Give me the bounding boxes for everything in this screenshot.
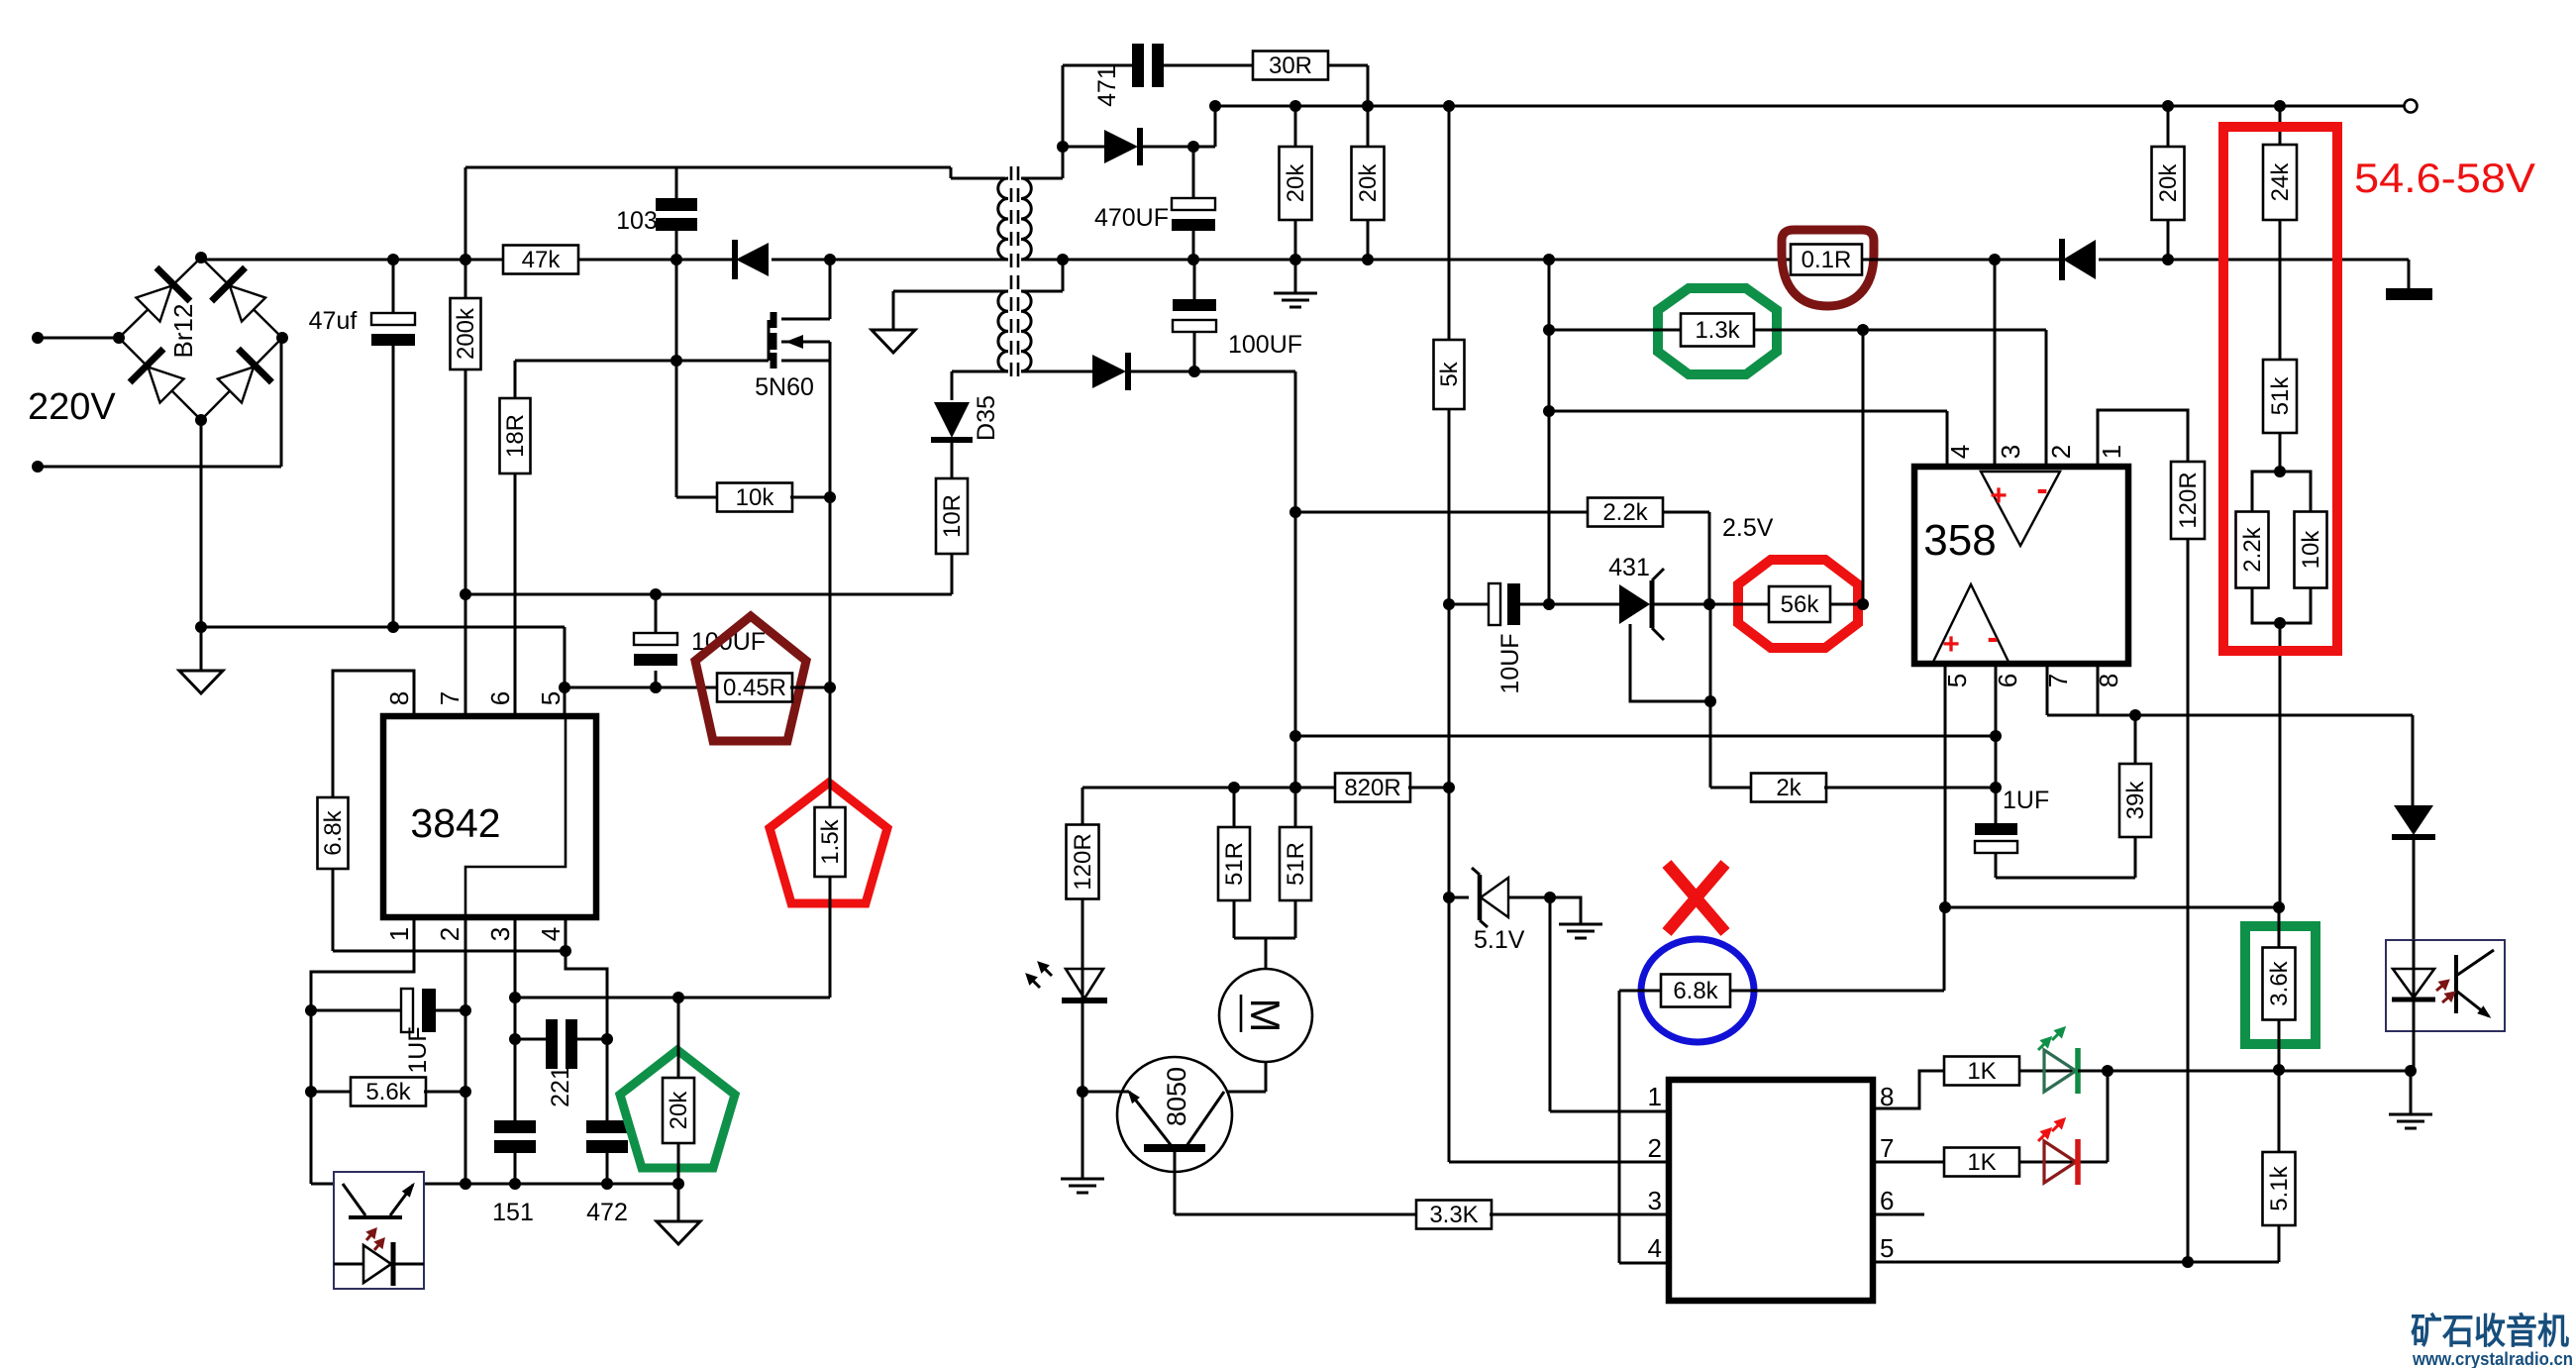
optocoupler U4 LED [2392, 940, 2435, 1071]
diode secondary rectifier bottom [1092, 353, 1194, 390]
bridge diode D3 (bottom-left edge) [130, 349, 188, 407]
svg-text:Br12: Br12 [168, 304, 198, 359]
wire 431 ref [1630, 604, 1716, 788]
svg-text:20k: 20k [2155, 163, 2182, 203]
wire lower output jog [1194, 371, 1301, 827]
ground symbol pentagon [657, 1184, 700, 1244]
svg-text:3: 3 [1996, 445, 2025, 459]
node AC input top terminal [32, 332, 119, 344]
resistor 51R second [1280, 788, 1311, 938]
wire U3 pin2 [1449, 1161, 1669, 1164]
wire pwm feedback [515, 992, 830, 1003]
resistor 30R [1164, 52, 1368, 107]
svg-text:5: 5 [536, 691, 566, 705]
svg-text:51R: 51R [1283, 842, 1309, 886]
svg-text:1: 1 [2097, 445, 2126, 459]
svg-text:8: 8 [384, 691, 414, 705]
svg-text:-: - [2036, 471, 2047, 508]
svg-text:-: - [1987, 619, 1998, 657]
svg-text:6: 6 [485, 691, 515, 705]
svg-text:1K: 1K [1967, 1149, 1996, 1176]
svg-text:47k: 47k [522, 247, 562, 273]
svg-text:1: 1 [384, 927, 414, 941]
labels U3 left pins [1648, 1082, 1662, 1263]
svg-text:2k: 2k [1776, 775, 1802, 801]
resistor 2.2k middle [1588, 498, 1715, 611]
svg-text:10UF: 10UF [1496, 633, 1524, 693]
resistor 120R right [2171, 462, 2205, 1268]
wire aux right bottom [1021, 370, 1092, 373]
resistor 2k [1710, 774, 1996, 802]
resistor 51k [2263, 360, 2297, 477]
resistor 5.1k [2263, 1070, 2296, 1262]
svg-text:100UF: 100UF [1228, 331, 1302, 359]
LED red [2019, 1071, 2108, 1185]
svg-text:1.5k: 1.5k [817, 818, 844, 864]
wire secondary common rail [1063, 254, 1791, 265]
ground symbol LED [1061, 1092, 1104, 1193]
svg-text:39k: 39k [2122, 781, 2149, 820]
wire 3842 pin2 [460, 917, 471, 1190]
wire U3 pin5 line [1873, 1261, 2279, 1264]
wire emitter to 3.3K [1175, 1152, 1418, 1214]
svg-text:2.5V: 2.5V [1722, 514, 1774, 542]
wire sense vertical [1543, 254, 1555, 604]
svg-text:30R: 30R [1269, 53, 1312, 79]
resistor 1.5k [815, 687, 846, 998]
wire drain vertical [781, 260, 830, 319]
svg-text:2: 2 [2046, 445, 2076, 459]
capacitor 100UF vcc filter [634, 594, 766, 693]
svg-text:220V: 220V [28, 386, 116, 428]
resistor 3.6k [2263, 907, 2296, 1076]
svg-text:4: 4 [1945, 445, 1975, 459]
wire 51R join [1234, 938, 1295, 969]
svg-text:5: 5 [1880, 1233, 1894, 1263]
wire 56k right vertical [1862, 330, 1865, 604]
svg-text:5.1k: 5.1k [2266, 1165, 2293, 1210]
wire AC bottom to bridge right [280, 338, 283, 467]
resistor 200k [451, 167, 481, 594]
label 54.6-58V [2354, 155, 2535, 201]
diode secondary rectifier top [1063, 106, 1215, 165]
svg-text:1.3k: 1.3k [1695, 317, 1740, 344]
svg-text:6.8k: 6.8k [1673, 978, 1718, 1004]
svg-text:103: 103 [616, 207, 658, 235]
optocoupler U4 phototransistor [2432, 950, 2494, 1022]
svg-text:200k: 200k [453, 307, 479, 360]
wire comp line [1295, 735, 1996, 738]
svg-text:56k: 56k [1781, 591, 1820, 618]
wire RT timing [333, 917, 613, 1120]
node AC input bottom terminal [32, 461, 281, 473]
resistor 39k [1996, 715, 2151, 878]
optocoupler U5 box [334, 1172, 424, 1289]
resistor 1K red [1944, 1148, 2044, 1177]
svg-text:18R: 18R [502, 414, 529, 458]
transformer T1 aux winding right [1021, 291, 1031, 371]
transformer T1 secondary winding [1021, 178, 1031, 260]
svg-text:20k: 20k [1355, 163, 1382, 203]
resistor 3.3K [1416, 1201, 1669, 1229]
zener diode 5.1V [1449, 868, 1556, 954]
svg-text:3.3K: 3.3K [1429, 1202, 1478, 1228]
octagon red around 56k [1738, 560, 1858, 648]
resistor 56k [1709, 586, 1869, 622]
svg-text:2: 2 [435, 927, 464, 941]
svg-text:M: M [1242, 999, 1288, 1033]
wire Vcc aux [460, 588, 952, 716]
svg-text:1UF: 1UF [2003, 787, 2049, 814]
optocoupler U5 phototransistor [343, 1180, 419, 1254]
svg-text:2.2k: 2.2k [2239, 526, 2266, 572]
wire bridge bottom to ground rail [200, 420, 203, 627]
svg-text:0.45R: 0.45R [723, 675, 786, 701]
wire aux left bottom [952, 371, 1008, 400]
wire pin3 to output rail [1989, 254, 2001, 467]
svg-text:6: 6 [1880, 1186, 1894, 1215]
capacitor 471 [1063, 44, 1164, 107]
svg-text:6.8k: 6.8k [320, 809, 347, 855]
rectangle red highlight [2223, 127, 2337, 651]
svg-text:431: 431 [1608, 554, 1650, 581]
resistor 20k pentagon [663, 998, 694, 1184]
svg-text:8050: 8050 [1162, 1067, 1191, 1126]
label 220V [28, 386, 116, 428]
motor M1 [1219, 969, 1312, 1062]
svg-text:0.1R: 0.1R [1802, 247, 1852, 273]
resistor 10k [717, 483, 836, 688]
svg-text:3: 3 [1648, 1186, 1662, 1215]
wire U3 pin1 [1550, 897, 1669, 1111]
ground symbol aux [872, 330, 915, 353]
optocoupler U4 box [2386, 940, 2505, 1031]
labels 3842 bottom pins [384, 927, 566, 941]
svg-text:20k: 20k [666, 1091, 692, 1130]
svg-text:3: 3 [485, 927, 515, 941]
svg-text:358: 358 [1923, 516, 1996, 565]
label 2.5V [1722, 514, 1774, 542]
regulator 431 [1549, 554, 1709, 640]
capacitor 1UF right [1975, 787, 2049, 878]
resistor 6.8k vref [318, 671, 415, 951]
watermark logo [2411, 1311, 2569, 1351]
wire +V rail [1209, 100, 2404, 112]
wire divider bottom [2274, 617, 2286, 907]
svg-text:+: + [1990, 479, 2008, 512]
labels 358 bottom pins [1942, 674, 2123, 687]
wire gate [515, 260, 769, 497]
resistor 24k [2263, 106, 2297, 360]
bridge rectifier Br12 diamond [113, 252, 288, 426]
bridge diode D2 (right-top edge) [212, 267, 270, 326]
op-amp B triangle [1933, 584, 2009, 662]
svg-text:5N60: 5N60 [755, 373, 814, 401]
diode feed right [2392, 715, 2435, 940]
label Br12 [168, 304, 198, 359]
capacitor 221 [515, 1019, 607, 1107]
capacitor 47uf [309, 260, 415, 627]
wire 2.2k feed [1295, 511, 1589, 514]
ground symbol 20k [1274, 260, 1317, 307]
svg-text:10k: 10k [736, 484, 775, 511]
svg-text:5.6k: 5.6k [365, 1079, 411, 1105]
resistor 10k right [2280, 512, 2327, 624]
bridge diode D1 (left-top edge) [132, 267, 190, 326]
resistor 0.45R [717, 674, 836, 702]
diode main line (left-pointing) [735, 240, 836, 279]
svg-text:1UF: 1UF [404, 1026, 432, 1073]
ground symbol zener [1550, 897, 1602, 938]
wire HV rail top [465, 167, 1005, 178]
svg-text:470UF: 470UF [1094, 204, 1169, 232]
rectangle green highlight [2245, 926, 2316, 1044]
svg-text:10R: 10R [939, 494, 966, 538]
svg-text:5k: 5k [1436, 361, 1463, 386]
wire comparator input [1944, 901, 2285, 913]
pentagon green around 20k [620, 1050, 735, 1168]
svg-text:51k: 51k [2267, 376, 2294, 416]
wire 358 pin5 [1939, 664, 1951, 913]
pentagon dark-red around 0.45R [695, 616, 806, 741]
mark red X [1667, 864, 1725, 932]
wire pin2 connect [2045, 330, 2048, 467]
svg-text:1K: 1K [1967, 1058, 1996, 1085]
resistor 20k first [1280, 106, 1312, 260]
pentagon red around 1.5k [770, 783, 887, 903]
svg-text:4: 4 [1648, 1233, 1662, 1263]
bridge diode D4 (bottom-right edge) [213, 349, 271, 407]
octagon green around 1.3k [1658, 288, 1777, 374]
resistor 1.3k [1543, 314, 2046, 347]
capacitor 1UF comp [311, 989, 465, 1074]
svg-text:2: 2 [1648, 1133, 1662, 1163]
ground wire bottom-left [195, 621, 565, 633]
svg-text:24k: 24k [2267, 162, 2294, 202]
LED green [2019, 1022, 2113, 1094]
svg-text:7: 7 [1880, 1133, 1894, 1163]
svg-text:51R: 51R [1221, 842, 1248, 886]
capacitor 470UF [1094, 147, 1215, 265]
transistor Q2 8050 [1117, 1057, 1232, 1172]
ground symbol right [2389, 1071, 2432, 1128]
wire LED to base node [1077, 1000, 1088, 1098]
wire zener node to op-amp pin4 [1549, 411, 1947, 467]
svg-text:20k: 20k [1283, 163, 1309, 203]
svg-text:54.6-58V: 54.6-58V [2354, 155, 2535, 201]
wire 3842 internal [465, 719, 566, 914]
labels 358 top pins [1945, 445, 2126, 459]
wire secondary bottom [1021, 254, 1069, 265]
svg-text:471: 471 [1093, 65, 1121, 107]
wire U3 pin8 [1873, 1071, 1944, 1108]
optocoupler U5 LED [334, 1242, 424, 1286]
transformer T1 aux winding left [998, 291, 1008, 371]
transistor Q1 5N60 MOSFET [755, 312, 830, 497]
diode to 358 supply [1862, 239, 2409, 280]
svg-text:www.crystalradio.cn: www.crystalradio.cn [2412, 1349, 2573, 1368]
wire LED cathode rail [2078, 1065, 2417, 1077]
wire motor to collector [1224, 1061, 1266, 1092]
diode D35 [931, 395, 1000, 441]
wire U3 pin4 to 6.8k [1619, 991, 1669, 1263]
transformer T1 primary winding [998, 178, 1008, 260]
resistor 5k [1434, 106, 1465, 610]
svg-text:4: 4 [536, 927, 566, 941]
wire secondary top [1021, 65, 1069, 178]
op-amp A triangle [1981, 471, 2060, 546]
svg-text:5.1V: 5.1V [1474, 926, 1525, 954]
resistor 10R [936, 443, 968, 594]
svg-text:2.2k: 2.2k [1602, 499, 1648, 526]
svg-text:472: 472 [586, 1199, 628, 1226]
wire 358 pin1 to 120R [2098, 410, 2188, 467]
wire U3 pin7 [1873, 1161, 1944, 1164]
transformer T1 core [1011, 166, 1018, 381]
resistor 1K green [1944, 1057, 2044, 1086]
capacitor 10UF [1449, 583, 1555, 694]
arc dark-red around 0.1R [1782, 230, 1874, 306]
resistor 18R [500, 361, 531, 716]
terminal open circle +V [2405, 100, 2418, 113]
resistor 0.1R [1791, 245, 1862, 275]
wire primary bottom [830, 259, 1008, 262]
resistor 820R [1082, 774, 1455, 802]
svg-text:+: + [1942, 628, 1960, 661]
wire 6.8k to pin5 node [1943, 907, 1946, 991]
svg-text:3.6k: 3.6k [2266, 960, 2293, 1005]
wire aux left top to ground [893, 291, 1008, 330]
capacitor 100UF secondary [1173, 260, 1302, 377]
labels 3842 top pins [384, 691, 566, 705]
ground symbol bottom-left [179, 627, 223, 693]
svg-text:矿石收音机: 矿石收音机 [2411, 1311, 2569, 1351]
wire base [1082, 1091, 1129, 1094]
capacitor 151 [492, 1120, 536, 1226]
resistor 6.8k fan [1619, 975, 1944, 1007]
wire 3842 pin3 [509, 917, 521, 1190]
wire 3842 pin1 comp [305, 917, 414, 1184]
wire ground bus bottom [311, 1178, 684, 1190]
capacitor 103 [616, 167, 697, 260]
svg-text:7: 7 [435, 691, 464, 705]
resistor 5.6k [311, 1078, 465, 1106]
wire aux right top [1021, 260, 1063, 291]
svg-text:10k: 10k [2298, 530, 2324, 570]
watermark url [2412, 1349, 2573, 1368]
svg-text:3842: 3842 [410, 800, 500, 846]
LED indicator [1021, 899, 1107, 1003]
wire 820R node down [1443, 604, 1455, 1162]
wire bridge top to main HV rail [201, 254, 682, 265]
resistor 20k right [2152, 106, 2185, 260]
svg-text:151: 151 [492, 1199, 534, 1226]
wire U3 pin6 stub [1873, 1213, 1924, 1216]
resistor 2.2k right [2236, 512, 2281, 624]
resistor 51R first [1218, 788, 1250, 938]
op-amp U2 358 box [1914, 467, 2128, 664]
IC U1 3842 box [383, 716, 596, 917]
svg-text:120R: 120R [1070, 833, 1096, 890]
svg-text:1: 1 [1648, 1082, 1662, 1111]
labels U3 right pins [1880, 1082, 1894, 1263]
svg-text:221: 221 [547, 1066, 574, 1107]
capacitor 472 [586, 1120, 628, 1226]
svg-text:D35: D35 [973, 395, 1000, 441]
resistor 47k [503, 246, 736, 274]
wire ground jog to 0.45R line [559, 627, 719, 716]
IC U3 box [1669, 1080, 1873, 1301]
svg-text:120R: 120R [2175, 472, 2202, 528]
svg-text:820R: 820R [1344, 775, 1400, 801]
wire 358 pin6 [1990, 664, 2002, 793]
ellipse blue around 6.8k [1641, 939, 1754, 1042]
wire divider split [2252, 472, 2311, 512]
resistor 20k second [1352, 106, 1385, 260]
ground bar right [2386, 260, 2432, 300]
wire 358 out pins 7 8 [2047, 664, 2413, 721]
resistor 120R left [1067, 788, 1099, 969]
svg-text:47uf: 47uf [309, 307, 358, 335]
